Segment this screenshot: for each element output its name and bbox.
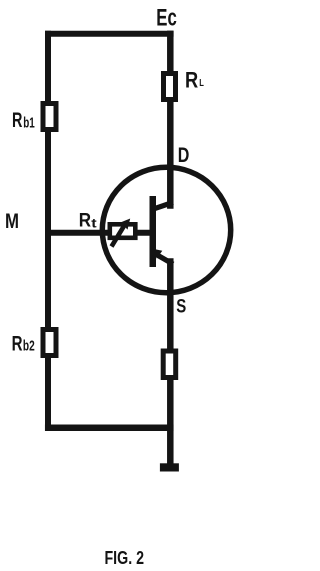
svg-text:b2: b2	[23, 338, 35, 354]
svg-text:FIG. 2: FIG. 2	[105, 547, 145, 568]
wire: left rail vertical	[45, 34, 51, 428]
svg-text:R: R	[79, 210, 91, 231]
svg-text:D: D	[178, 144, 190, 167]
svg-text:R: R	[185, 68, 198, 93]
svg-text:R: R	[12, 332, 23, 355]
thermistor Rt arrow shaft	[112, 224, 126, 247]
transistor Q1 base bar	[150, 196, 157, 267]
svg-text:M: M	[5, 210, 19, 233]
wire: node M to gate through Rt	[48, 230, 152, 236]
transistor Q1 body circle	[102, 167, 230, 292]
svg-text:R: R	[12, 109, 22, 132]
resistor Rb2	[43, 330, 56, 356]
wire: top supply rail	[48, 31, 171, 37]
resistor RL	[164, 74, 176, 100]
thermistor Rt box	[110, 224, 136, 238]
svg-text:b1: b1	[23, 115, 35, 131]
ground	[160, 463, 179, 471]
transistor Q1 drain stroke	[155, 203, 171, 208]
resistor R2 (source resistor, unlabeled)	[163, 351, 176, 378]
thermistor Rt arrowhead	[121, 219, 130, 230]
transistor Q1 source arrowhead	[154, 249, 162, 259]
svg-text:t: t	[91, 215, 97, 230]
wire: right rail from supply through RL to drain	[167, 34, 174, 206]
svg-text:L: L	[199, 78, 204, 89]
transistor Q1 source stroke	[156, 254, 171, 263]
wire: bottom rail	[48, 424, 170, 431]
resistor Rb1	[43, 104, 56, 130]
svg-text:Ec: Ec	[156, 5, 177, 32]
svg-text:S: S	[176, 296, 186, 317]
wire: source lead down through resistor to ground	[167, 262, 174, 465]
